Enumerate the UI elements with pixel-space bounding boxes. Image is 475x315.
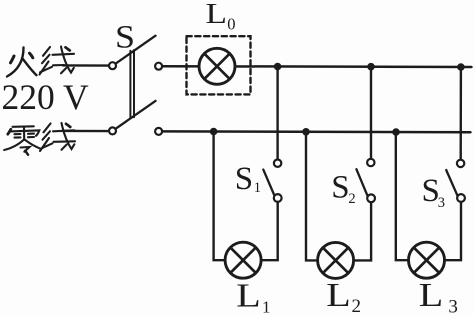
svg-text:S: S	[331, 169, 349, 205]
wire neutral drop to lamp L2	[306, 132, 318, 261]
node neutral-L3 junction	[392, 128, 400, 136]
switch S3 blade	[446, 170, 458, 196]
switch S3 bottom terminal	[457, 194, 465, 202]
switch S pole-2 right terminal	[155, 128, 162, 135]
switch S pole-1 right terminal	[155, 63, 162, 70]
node live-S3 junction	[457, 63, 465, 71]
node neutral-L1 junction	[210, 128, 218, 136]
switch S1 blade	[263, 170, 274, 195]
svg-text:2: 2	[352, 296, 362, 315]
wire neutral lead from 零线	[63, 130, 108, 133]
node neutral-L2 junction	[302, 128, 310, 136]
wire S3 to lamp L3	[444, 202, 461, 260]
wire S1 to lamp L1	[261, 202, 278, 260]
lamp L0	[199, 48, 235, 84]
label 火线 (live wire text)	[7, 48, 37, 77]
lamp L1	[225, 242, 261, 278]
svg-text:1: 1	[262, 297, 271, 315]
svg-text:3: 3	[438, 195, 445, 211]
svg-text:3: 3	[448, 297, 458, 315]
switch S2 bottom terminal	[367, 194, 375, 202]
switch S3 top terminal	[457, 160, 464, 167]
switch S1 top terminal	[274, 160, 281, 167]
wire neutral drop to lamp L3	[396, 132, 409, 260]
node live-S1 junction	[274, 63, 282, 71]
svg-text:2: 2	[348, 191, 355, 207]
label 线 (of 火线)	[40, 47, 75, 75]
svg-text:L: L	[206, 0, 228, 30]
wire branch-3 live drop to S3	[460, 67, 463, 160]
switch S pole-1 blade	[117, 36, 156, 63]
wire branch-1 live drop to S1	[276, 67, 278, 160]
wire neutral bus	[162, 130, 470, 133]
svg-text:0: 0	[227, 15, 235, 34]
svg-text:S: S	[115, 20, 135, 56]
wire live lead from 火线	[63, 64, 108, 67]
switch S1 bottom terminal	[274, 194, 282, 202]
wire branch-2 live drop to S2	[370, 67, 372, 159]
svg-text:L: L	[326, 277, 351, 314]
lamp L3	[409, 242, 445, 278]
switch S pole-1 left terminal	[109, 62, 116, 69]
svg-text:L: L	[236, 277, 260, 314]
label 零 (neutral wire text)	[4, 126, 39, 154]
switch S2 blade	[356, 169, 367, 195]
wire S2 to lamp L2	[353, 202, 371, 260]
label 线 (of 零线)	[40, 123, 75, 151]
dashed enclosure around L0	[187, 36, 251, 94]
svg-text:220 V: 220 V	[2, 77, 89, 117]
switch S2 top terminal	[367, 159, 374, 166]
svg-text:L: L	[419, 277, 444, 314]
node live-S2 junction	[367, 63, 375, 71]
svg-text:S: S	[235, 161, 253, 197]
switch S mechanical link (double line)	[130, 50, 134, 118]
wire neutral drop to lamp L1	[214, 132, 226, 261]
lamp L2	[318, 242, 354, 278]
wire live bus (top)	[162, 65, 471, 68]
switch S pole-2 blade	[117, 101, 156, 128]
svg-text:1: 1	[254, 180, 261, 196]
switch S pole-2 left terminal	[109, 127, 116, 134]
